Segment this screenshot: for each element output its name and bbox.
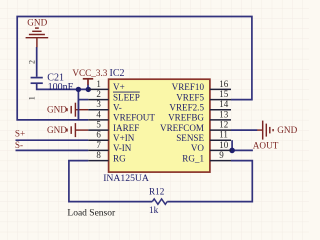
svg-text:5: 5	[96, 120, 101, 130]
wire node A vertical overlay	[77, 100, 79, 119]
svg-text:SLEEP: SLEEP	[113, 92, 140, 102]
node junction dot VCC	[86, 87, 91, 92]
svg-text:15: 15	[219, 89, 229, 99]
svg-text:VREFOUT: VREFOUT	[113, 113, 155, 123]
svg-text:8: 8	[96, 150, 101, 160]
svg-text:1: 1	[28, 96, 37, 100]
wire pin12 to GND	[231, 129, 257, 131]
svg-text:SENSE: SENSE	[176, 133, 204, 143]
svg-text:S-: S-	[15, 140, 23, 150]
ground top-left	[26, 28, 49, 47]
svg-text:INA125UA: INA125UA	[103, 173, 149, 184]
svg-text:10: 10	[219, 140, 229, 150]
node junction dot left	[76, 87, 81, 92]
pin 6 (V+IN)	[88, 130, 134, 143]
svg-text:2: 2	[96, 89, 101, 99]
ground at pin5	[67, 123, 88, 137]
ground at pin12	[257, 121, 273, 140]
pin 3 (V-)	[88, 99, 121, 112]
ground at pin3	[67, 103, 88, 117]
pin 14 (VREF2.5)	[169, 99, 231, 112]
wire VCC stem lower part	[87, 85, 89, 90]
svg-text:GND: GND	[47, 105, 67, 115]
svg-text:4: 4	[96, 109, 101, 119]
svg-text:GND: GND	[27, 17, 47, 27]
svg-text:VREF10: VREF10	[172, 82, 205, 92]
pin 9 (RG_1)	[182, 150, 231, 163]
wire S+ to pin6	[16, 139, 89, 141]
pin 4 (VREFOUT)	[88, 109, 155, 122]
capacitor C21	[31, 78, 43, 84]
pin 16 (VREF10)	[172, 79, 231, 92]
pin 12 (VREFCOM)	[160, 120, 231, 133]
svg-text:16: 16	[219, 79, 229, 89]
svg-text:V-IN: V-IN	[113, 143, 132, 153]
pin 5 (IAREF)	[88, 120, 139, 133]
wire pin10 to AOUT	[232, 149, 253, 151]
svg-text:RG_1: RG_1	[182, 153, 204, 163]
svg-text:11: 11	[219, 130, 228, 140]
pin 7 (V-IN)	[88, 140, 131, 153]
svg-text:IAREF: IAREF	[113, 123, 139, 133]
resistor R12 zigzag	[152, 199, 167, 204]
pin 13 (VREFBG)	[168, 109, 231, 122]
svg-text:100nF: 100nF	[48, 82, 74, 93]
svg-text:12: 12	[219, 120, 228, 130]
wire S- to pin7	[16, 149, 89, 151]
svg-text:V+IN: V+IN	[113, 133, 135, 143]
svg-text:VREF5: VREF5	[176, 92, 204, 102]
svg-text:6: 6	[96, 130, 101, 140]
svg-text:V+: V+	[113, 82, 125, 92]
svg-text:S+: S+	[15, 128, 25, 138]
pin 2 (SLEEP)	[88, 89, 140, 102]
wire pin11 to pin10	[231, 140, 233, 150]
power VCC_3.3 bar	[83, 79, 93, 85]
svg-text:VREF2.5: VREF2.5	[169, 102, 204, 112]
svg-text:IC2: IC2	[110, 68, 125, 79]
wire node A vertical to pin2 and row4	[77, 89, 79, 120]
svg-text:RG: RG	[113, 153, 126, 163]
pin 15 (VREF5)	[176, 89, 231, 102]
svg-text:3: 3	[96, 99, 101, 109]
wire RG loop right from R12 to pin9	[167, 161, 252, 202]
wire top reference loop: pin4 VREFOUT to pin15 VREF5	[17, 17, 252, 120]
wire pin2 SLEEP horizontal	[78, 99, 88, 101]
svg-text:14: 14	[219, 99, 229, 109]
svg-text:VO: VO	[191, 143, 205, 153]
svg-text:V-: V-	[113, 102, 122, 112]
svg-text:1: 1	[96, 79, 101, 89]
IC U1 (IC2) INA125UA instrumentation amplifier body	[109, 79, 210, 172]
svg-text:Load Sensor: Load Sensor	[67, 209, 116, 219]
svg-text:GND: GND	[47, 125, 67, 135]
svg-text:VCC_3.3: VCC_3.3	[72, 68, 107, 78]
pin 11 (SENSE)	[176, 130, 231, 143]
svg-text:AOUT: AOUT	[253, 141, 279, 151]
svg-text:9: 9	[219, 150, 224, 160]
pin 1 (V+)	[88, 79, 124, 92]
svg-text:VREFCOM: VREFCOM	[160, 123, 204, 133]
wire C21 top stem	[36, 47, 38, 77]
pin 8 (RG)	[88, 150, 126, 163]
pin 10 (VO)	[191, 140, 231, 153]
svg-text:2: 2	[28, 60, 37, 64]
svg-text:VREFBG: VREFBG	[168, 113, 204, 123]
svg-text:R12: R12	[149, 187, 165, 197]
wire RG loop left from pin8 to R12	[69, 161, 152, 202]
wire C21 bottom to pin1 row	[37, 84, 89, 90]
node junction dot AOUT	[229, 148, 235, 154]
svg-text:GND: GND	[277, 125, 297, 135]
svg-text:7: 7	[96, 140, 101, 150]
svg-text:13: 13	[219, 109, 229, 119]
svg-text:1k: 1k	[149, 205, 159, 215]
